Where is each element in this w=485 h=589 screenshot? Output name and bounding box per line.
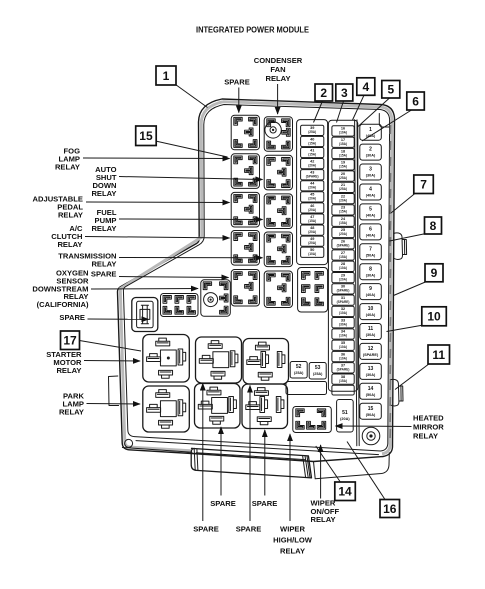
svg-text:(10A): (10A) xyxy=(339,345,347,349)
svg-text:(SPARE): (SPARE) xyxy=(337,244,350,248)
svg-text:3: 3 xyxy=(369,167,372,173)
top-right corner notch xyxy=(379,114,389,128)
svg-text:1: 1 xyxy=(369,127,372,133)
arrow spare top xyxy=(238,88,240,113)
svg-text:17: 17 xyxy=(63,334,77,348)
wiper relay block xyxy=(293,407,332,433)
label starter motor relay xyxy=(46,350,82,375)
panel divider line xyxy=(355,120,360,446)
svg-text:(50A): (50A) xyxy=(366,393,376,397)
svg-text:SPARE: SPARE xyxy=(210,499,236,508)
svg-text:14: 14 xyxy=(368,386,374,392)
svg-text:RELAY: RELAY xyxy=(91,260,116,269)
arrow condenser fan relay xyxy=(277,84,279,114)
callout 11 xyxy=(428,345,450,364)
svg-text:SPARE: SPARE xyxy=(224,78,250,87)
callout 7 xyxy=(414,175,434,194)
svg-text:(50A): (50A) xyxy=(366,253,376,257)
park lamp relay xyxy=(143,386,190,432)
svg-text:10: 10 xyxy=(368,306,374,312)
svg-text:11: 11 xyxy=(368,326,374,332)
svg-text:SPARE: SPARE xyxy=(236,525,262,534)
svg-text:(15A): (15A) xyxy=(339,165,347,169)
fuse 22 20A xyxy=(332,193,354,203)
case bottom lip right xyxy=(314,453,390,479)
fuses 52 53 xyxy=(290,362,326,380)
fuse 37 (SPARE) xyxy=(332,363,354,373)
leader 14 xyxy=(316,446,340,482)
arrow spare 1 xyxy=(119,277,229,278)
spare relay row5 col1 xyxy=(231,270,259,307)
svg-text:HIGH/LOW: HIGH/LOW xyxy=(273,536,313,545)
label spare 2 xyxy=(59,313,85,322)
fuse 41 15A xyxy=(301,147,324,157)
auto shut down relay xyxy=(264,155,292,190)
svg-text:(20A): (20A) xyxy=(339,198,347,202)
relay big r2c3 (spare) xyxy=(242,384,288,429)
svg-text:(30A): (30A) xyxy=(339,322,347,326)
svg-text:(20A): (20A) xyxy=(308,197,316,201)
empty slot below fuse 38 xyxy=(332,385,354,395)
fuse 25 20A xyxy=(332,227,354,237)
svg-text:(15A): (15A) xyxy=(339,210,347,214)
arrow spare u1 xyxy=(220,427,222,496)
label spare bottom l1 xyxy=(193,525,219,534)
fuse 8 30A xyxy=(360,264,382,280)
svg-text:52: 52 xyxy=(296,364,302,370)
svg-text:2: 2 xyxy=(369,147,372,153)
fuse 7 50A xyxy=(360,244,382,260)
svg-text:SPARE: SPARE xyxy=(91,270,117,279)
svg-text:9: 9 xyxy=(369,286,372,292)
callout 4 xyxy=(357,78,375,96)
fuse 36 10A xyxy=(332,351,354,361)
svg-text:RELAY: RELAY xyxy=(55,163,80,172)
svg-text:6: 6 xyxy=(369,226,372,232)
svg-text:(25A): (25A) xyxy=(294,371,304,375)
svg-text:(10A): (10A) xyxy=(339,311,347,315)
label a/c clutch relay xyxy=(51,224,83,249)
svg-text:(20A): (20A) xyxy=(308,230,316,234)
svg-text:(25A): (25A) xyxy=(313,372,323,376)
label transmission relay xyxy=(58,252,116,269)
svg-text:(15A): (15A) xyxy=(308,219,316,223)
fuse 47 15A xyxy=(301,214,324,224)
svg-text:(10A): (10A) xyxy=(339,266,347,270)
svg-text:RELAY: RELAY xyxy=(311,515,336,524)
right side tab lower xyxy=(390,379,403,406)
svg-text:4: 4 xyxy=(369,187,372,193)
inner panel bottom edge second line xyxy=(136,441,379,455)
fuse 32 10A xyxy=(332,306,354,316)
case inner wall outline xyxy=(123,105,389,452)
svg-text:(30A): (30A) xyxy=(366,333,376,337)
svg-text:(20A): (20A) xyxy=(308,163,316,167)
leader 17 xyxy=(80,341,142,352)
svg-text:(20A): (20A) xyxy=(339,232,347,236)
callout 3 xyxy=(336,84,353,101)
fuse 19 15A xyxy=(332,160,354,170)
svg-text:(20A): (20A) xyxy=(308,208,316,212)
leader 1 xyxy=(176,85,208,108)
fuse 42 20A xyxy=(301,159,324,169)
arrow fuel pump relay xyxy=(119,218,263,221)
arrow spare l1 xyxy=(202,384,204,522)
svg-text:RELAY: RELAY xyxy=(58,211,83,220)
svg-text:10: 10 xyxy=(427,310,441,324)
svg-text:RELAY: RELAY xyxy=(413,432,438,441)
svg-text:(20A): (20A) xyxy=(340,417,350,421)
svg-text:5: 5 xyxy=(387,83,394,97)
svg-text:(30A): (30A) xyxy=(366,373,376,377)
arrow spare l2 xyxy=(249,386,251,522)
svg-text:(10A): (10A) xyxy=(339,356,347,360)
fuse 18 15A xyxy=(332,148,354,158)
starter motor relay xyxy=(143,335,190,383)
svg-text:HEATED: HEATED xyxy=(413,414,444,423)
svg-text:5: 5 xyxy=(369,207,372,213)
svg-text:(15A): (15A) xyxy=(339,221,347,225)
fuse 34 10A xyxy=(332,329,354,339)
fuse 43 (SPARE) xyxy=(301,170,324,180)
fuse 23 15A xyxy=(332,205,354,215)
svg-text:8: 8 xyxy=(430,219,437,233)
arrow spare u2 xyxy=(264,430,266,496)
fuse 13 30A xyxy=(360,363,382,379)
label adjustable pedal relay xyxy=(33,195,84,220)
svg-text:(40A): (40A) xyxy=(366,313,376,317)
svg-text:(25A): (25A) xyxy=(308,130,316,134)
fuse 51 20A xyxy=(337,400,354,433)
callout 17 xyxy=(61,331,80,350)
fuse 20 25A xyxy=(332,171,354,181)
fog lamp relay xyxy=(231,154,259,189)
svg-text:15: 15 xyxy=(139,129,153,143)
condenser fan relay xyxy=(264,117,292,152)
svg-text:11: 11 xyxy=(432,348,445,362)
oxygen sensor downstream relay (california) xyxy=(201,280,231,317)
fuse panel B border xyxy=(328,120,357,391)
callout 15 xyxy=(136,126,157,146)
label wiper high/low relay xyxy=(273,525,313,556)
svg-text:(SPARE): (SPARE) xyxy=(306,175,319,179)
svg-text:(15A): (15A) xyxy=(339,255,347,259)
svg-text:SPARE: SPARE xyxy=(59,313,85,322)
svg-text:(CALIFORNIA): (CALIFORNIA) xyxy=(37,300,89,309)
spare module wide (6-pin) xyxy=(161,294,199,317)
leader 15 xyxy=(156,141,228,157)
fuse 45 20A xyxy=(301,192,324,202)
svg-text:(20A): (20A) xyxy=(339,277,347,281)
spare relay row5 col2 xyxy=(264,271,292,308)
arrow fog lamp relay xyxy=(83,157,230,160)
fuse 44 20A xyxy=(301,181,324,191)
svg-text:(40A): (40A) xyxy=(366,293,376,297)
svg-text:RELAY: RELAY xyxy=(56,366,81,375)
svg-text:(15A): (15A) xyxy=(339,379,347,383)
svg-text:(30A): (30A) xyxy=(366,154,376,158)
label auto shut down relay xyxy=(91,165,116,198)
fuse 33 30A xyxy=(332,318,354,328)
svg-text:RELAY: RELAY xyxy=(59,408,84,417)
callout 10 xyxy=(422,307,447,326)
fuse 1 40A xyxy=(360,124,382,140)
svg-text:1: 1 xyxy=(163,69,170,83)
arrow spare 2 xyxy=(88,318,149,320)
fuse 35 10A xyxy=(332,340,354,350)
svg-text:RELAY: RELAY xyxy=(91,224,116,233)
leader 8 xyxy=(390,234,427,242)
label spare top xyxy=(224,78,250,87)
svg-text:12: 12 xyxy=(368,346,374,352)
leader 11 xyxy=(395,364,430,390)
spare slide module xyxy=(132,298,158,332)
svg-text:RELAY: RELAY xyxy=(280,546,305,555)
label fuel pump relay xyxy=(91,208,116,233)
leader 6 xyxy=(362,110,412,141)
arrow auto shut down relay xyxy=(119,177,263,180)
callout 9 xyxy=(425,264,443,282)
fuse 50 10A xyxy=(301,247,324,257)
label park lamp relay xyxy=(59,392,85,417)
svg-text:9: 9 xyxy=(431,266,438,280)
heated mirror relay symbol xyxy=(362,427,380,445)
svg-text:7: 7 xyxy=(420,178,427,192)
svg-text:16: 16 xyxy=(383,502,397,516)
svg-text:(15A): (15A) xyxy=(308,152,316,156)
fuse 14 50A xyxy=(360,383,382,399)
sub-panel A2 border xyxy=(298,268,328,313)
arrow heated mirror relay xyxy=(336,425,412,428)
svg-text:SPARE: SPARE xyxy=(193,525,219,534)
empty box below 52/53 xyxy=(286,382,327,395)
svg-text:INTEGRATED POWER MODULE: INTEGRATED POWER MODULE xyxy=(196,25,309,35)
fuse 5 40A xyxy=(360,204,382,220)
svg-text:(SPARE): (SPARE) xyxy=(337,289,350,293)
svg-text:51: 51 xyxy=(342,410,348,416)
mounting hole bottom-left xyxy=(125,439,133,447)
transmission relay xyxy=(264,232,292,267)
label heated mirror relay xyxy=(413,414,444,441)
svg-text:(10A): (10A) xyxy=(339,131,347,135)
svg-text:(40A): (40A) xyxy=(366,214,376,218)
arrow wiper on/off relay xyxy=(320,445,322,499)
svg-text:SPARE: SPARE xyxy=(252,499,278,508)
arrow a/c clutch relay xyxy=(85,237,230,239)
svg-text:(15A): (15A) xyxy=(339,153,347,157)
svg-text:FAN: FAN xyxy=(270,65,285,74)
svg-text:RELAY: RELAY xyxy=(91,189,116,198)
left side tab xyxy=(109,376,119,406)
callout 6 xyxy=(407,92,425,110)
fuse 48 20A xyxy=(301,225,324,235)
svg-text:8: 8 xyxy=(369,266,372,272)
svg-text:(15A): (15A) xyxy=(339,142,347,146)
arrow starter motor relay xyxy=(84,360,140,363)
leader 7 xyxy=(391,193,416,213)
fuse panel A border xyxy=(297,120,328,265)
fuse 24 15A xyxy=(332,216,354,226)
svg-text:(40A): (40A) xyxy=(366,233,376,237)
fuse 17 15A xyxy=(332,137,354,147)
svg-text:(15A): (15A) xyxy=(308,141,316,145)
svg-text:(40A): (40A) xyxy=(366,194,376,198)
label fog lamp relay xyxy=(55,147,80,172)
svg-text:13: 13 xyxy=(368,366,374,372)
label wiper on/off relay xyxy=(311,499,340,525)
label spare 1 xyxy=(91,270,117,279)
leader 5 xyxy=(358,98,390,127)
relay spare (top row1 col1) xyxy=(231,115,259,150)
svg-text:(50A): (50A) xyxy=(366,413,376,417)
relay big r2c2 (spare) xyxy=(195,384,241,429)
label spare bottom u2 xyxy=(252,499,278,508)
svg-text:(25A): (25A) xyxy=(339,176,347,180)
leader 16 xyxy=(347,442,385,500)
arrow wiper high/low relay xyxy=(289,434,291,521)
svg-text:(SPARE): (SPARE) xyxy=(337,368,350,372)
svg-text:(SPARE): (SPARE) xyxy=(337,300,350,304)
fuse 16 10A xyxy=(332,126,354,136)
arrow oxygen sensor relay xyxy=(91,288,198,291)
fuse 9 40A xyxy=(360,284,382,300)
svg-text:4: 4 xyxy=(362,80,369,94)
fuse 21 25A xyxy=(332,182,354,192)
fuse 27 15A xyxy=(332,250,354,260)
adjustable pedal relay xyxy=(231,192,259,227)
fuse 3 30A xyxy=(360,164,382,180)
leader 3 xyxy=(337,101,344,123)
fuse 11 30A xyxy=(360,324,382,340)
label spare bottom l2 xyxy=(236,525,262,534)
right edge hatch xyxy=(389,125,391,134)
svg-text:14: 14 xyxy=(338,485,352,499)
callout 8 xyxy=(425,217,442,234)
fuel pump relay xyxy=(264,194,292,229)
svg-text:RELAY: RELAY xyxy=(57,240,82,249)
svg-text:CONDENSER: CONDENSER xyxy=(254,56,303,65)
fuse 28 10A xyxy=(332,261,354,271)
relay big r1c3 (spare) xyxy=(243,339,289,385)
svg-text:RELAY: RELAY xyxy=(265,74,290,83)
leader 4 xyxy=(353,95,365,120)
svg-text:7: 7 xyxy=(369,246,372,252)
svg-text:(20A): (20A) xyxy=(308,186,316,190)
fuse 49 20A xyxy=(301,236,324,246)
fuse 30 (SPARE) xyxy=(332,284,354,294)
fuse 2 30A xyxy=(360,144,382,160)
case edge channel (gray) xyxy=(120,102,392,454)
fuse 31 (SPARE) xyxy=(332,295,354,305)
fuse 6 40A xyxy=(360,224,382,240)
callout 16 xyxy=(380,500,400,518)
arrow transmission relay xyxy=(119,257,263,259)
svg-text:(SPARE): (SPARE) xyxy=(363,353,379,357)
fuse 10 40A xyxy=(360,304,382,320)
fuse 12 SPARE xyxy=(360,343,382,359)
callout 5 xyxy=(382,81,400,99)
callout 14 xyxy=(335,482,356,501)
a/c clutch relay xyxy=(231,231,259,266)
arrow park lamp relay xyxy=(87,403,141,406)
fuse 26 (SPARE) xyxy=(332,239,354,249)
leader 2 xyxy=(314,101,323,123)
fuse 29 20A xyxy=(332,272,354,282)
label spare bottom u1 xyxy=(210,499,236,508)
svg-text:(10A): (10A) xyxy=(308,252,316,256)
tray inner edge xyxy=(194,449,310,478)
callout 1 xyxy=(156,66,176,85)
svg-text:15: 15 xyxy=(368,406,374,412)
bottom tray xyxy=(191,448,311,478)
leader 9 xyxy=(394,282,427,296)
right side tab upper (callout 8 target) xyxy=(394,233,407,260)
svg-text:(30A): (30A) xyxy=(366,273,376,277)
relay big r1c2 (spare) xyxy=(196,337,242,383)
svg-text:2: 2 xyxy=(320,86,327,100)
svg-text:WIPER: WIPER xyxy=(280,525,305,534)
fuse 15 50A xyxy=(360,403,382,419)
case bottom lip left segment xyxy=(122,448,192,453)
label condenser fan relay xyxy=(254,56,303,83)
svg-text:(30A): (30A) xyxy=(366,174,376,178)
svg-text:(10A): (10A) xyxy=(339,334,347,338)
fuse 38 15A xyxy=(332,374,354,384)
svg-text:(25A): (25A) xyxy=(339,187,347,191)
fuse 39 25A xyxy=(301,125,324,135)
svg-text:(20A): (20A) xyxy=(308,241,316,245)
label oxygen sensor downstream relay xyxy=(32,269,89,310)
leader 10 xyxy=(387,325,424,332)
fuse 46 20A xyxy=(301,203,324,213)
fuse 4 40A xyxy=(360,184,382,200)
sub-panel A2 pins xyxy=(302,272,324,306)
svg-text:3: 3 xyxy=(341,86,348,100)
case outer outline xyxy=(117,99,394,462)
arrow adjustable pedal relay xyxy=(86,201,230,204)
fuse 40 15A xyxy=(301,136,324,146)
svg-text:53: 53 xyxy=(315,365,321,371)
callout 2 xyxy=(315,84,333,101)
svg-text:MIRROR: MIRROR xyxy=(413,423,444,432)
svg-text:6: 6 xyxy=(412,94,419,108)
